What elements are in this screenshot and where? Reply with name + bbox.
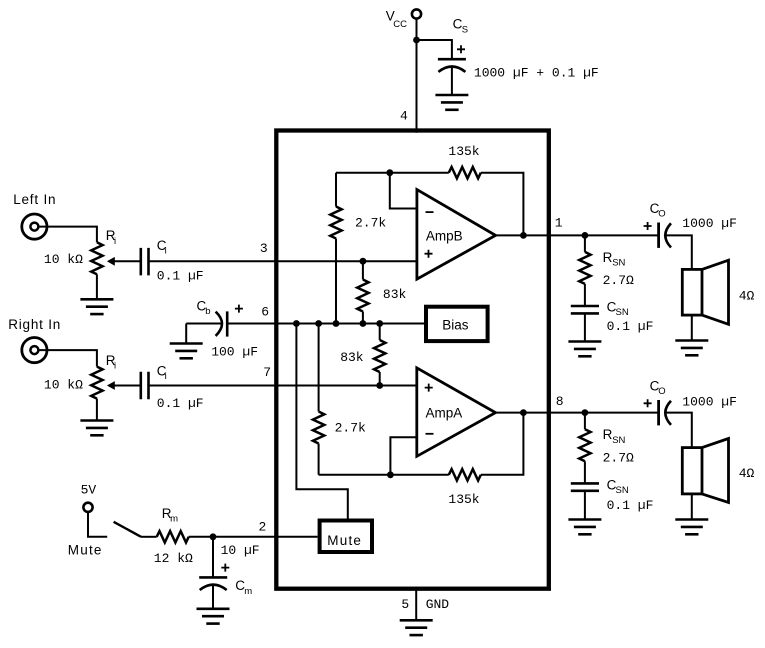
wire CS to ground [451, 67, 453, 96]
junction AmpA feedback [387, 471, 394, 478]
wire to Cm [212, 537, 214, 578]
junction VCC node [413, 37, 420, 44]
junction pin1 [582, 232, 589, 239]
svg-text:i: i [165, 245, 167, 256]
wire to AmpB inverting input [390, 173, 417, 209]
svg-text:12 kΩ: 12 kΩ [154, 551, 193, 566]
capacitor Ci right [141, 372, 149, 400]
svg-text:Mute: Mute [327, 533, 362, 548]
svg-text:5: 5 [401, 597, 409, 612]
ground speaker bottom [675, 518, 708, 521]
svg-text:1000 µF: 1000 µF [682, 395, 737, 410]
capacitor CS [438, 58, 466, 61]
svg-text:SN: SN [616, 485, 629, 496]
svg-text:m: m [170, 513, 178, 524]
ground CSN bottom [568, 518, 601, 521]
ground Ri left [80, 298, 113, 301]
resistor 2.7k upper [335, 173, 337, 324]
resistor 135k top [449, 167, 481, 178]
svg-text:R: R [603, 427, 613, 442]
wire Ri left to ground [96, 274, 98, 299]
op-amp AmpA [417, 368, 496, 456]
wire pin 2 row [213, 536, 318, 538]
svg-text:7: 7 [263, 365, 271, 380]
resistor 83k lower [379, 324, 381, 386]
polarity plus CS [457, 45, 465, 53]
svg-text:Mute: Mute [68, 542, 103, 557]
junction row d [360, 320, 367, 327]
wire CO to speaker bottom [665, 413, 691, 448]
AmpB minus input mark [426, 211, 434, 213]
svg-text:i: i [165, 371, 167, 382]
svg-text:0.1 µF: 0.1 µF [157, 396, 204, 411]
wire jack to Ri left [38, 227, 97, 243]
svg-text:0.1 µF: 0.1 µF [607, 498, 654, 513]
svg-text:100 µF: 100 µF [211, 344, 258, 359]
capacitor Cm [199, 576, 227, 579]
wire CSN bottom to ground [584, 491, 586, 520]
wire AmpA output to pin 8 [496, 412, 659, 414]
svg-text:1000 µF + 0.1 µF: 1000 µF + 0.1 µF [474, 65, 599, 80]
wire AmpB output to pin 1 [496, 234, 659, 236]
junction pin8 [582, 409, 589, 416]
node VCC terminal [412, 9, 421, 18]
wire speaker bottom to ground [691, 494, 693, 520]
junction row e [376, 320, 383, 327]
polarity plus Cm [221, 564, 229, 572]
resistor Ri right (pot) [91, 367, 102, 399]
wire speaker top to ground [691, 315, 693, 340]
capacitor Ci left [141, 248, 149, 276]
svg-text:AmpB: AmpB [426, 228, 463, 243]
resistor 135k bottom [449, 469, 481, 480]
svg-text:R: R [603, 250, 613, 265]
wire Cb to ground [185, 324, 187, 344]
ground Cm [197, 607, 230, 610]
svg-text:83k: 83k [340, 350, 364, 365]
wire CSN to ground [584, 313, 586, 341]
svg-text:SN: SN [612, 257, 625, 268]
speaker bottom [682, 448, 702, 494]
svg-text:i: i [114, 361, 116, 372]
AmpA minus input mark [426, 433, 434, 435]
svg-text:2.7k: 2.7k [335, 420, 366, 435]
svg-text:SN: SN [612, 435, 625, 446]
wire Ri right to ground [96, 399, 98, 421]
svg-text:AmpA: AmpA [426, 406, 463, 421]
svg-text:1: 1 [555, 216, 563, 231]
ground Cb [170, 342, 203, 345]
svg-text:1000 µF: 1000 µF [682, 216, 737, 231]
svg-text:0.1 µF: 0.1 µF [157, 269, 204, 284]
switch blade [114, 522, 141, 537]
wire jack to Ri right [38, 350, 97, 367]
svg-text:GND: GND [426, 597, 450, 612]
jack Left In [22, 214, 47, 239]
wire CO to speaker top [665, 235, 691, 269]
junction AmpB feedback [386, 169, 393, 176]
capacitor CO bottom [644, 399, 652, 407]
wiper arrow right [107, 381, 115, 390]
junction row c [333, 320, 340, 327]
terminal 5V [83, 503, 92, 512]
svg-text:135k: 135k [448, 492, 479, 507]
junction row b [315, 320, 322, 327]
svg-text:83k: 83k [383, 287, 407, 302]
wire wiper to Ci [114, 260, 141, 262]
wire AmpA feedback bottom [319, 413, 524, 475]
wire Rm to pin2 [189, 536, 213, 538]
svg-text:SN: SN [616, 307, 629, 318]
wire pin 3 row to AmpB plus input [149, 260, 417, 262]
capacitor CO top [644, 222, 652, 230]
junction pin7/83k lower [376, 382, 383, 389]
junction pin3/83k [360, 258, 367, 265]
svg-text:O: O [658, 386, 665, 397]
svg-text:Right In: Right In [8, 317, 61, 332]
wire pin 6 row [227, 323, 424, 325]
junction AmpA output [520, 409, 527, 416]
IC box U1 [276, 131, 549, 589]
capacitor Cb [186, 323, 222, 325]
svg-text:Bias: Bias [442, 318, 469, 333]
capacitor CSN bottom [571, 483, 599, 490]
wire VCC to CS [417, 40, 452, 59]
svg-text:2: 2 [259, 519, 267, 534]
ground CS [435, 94, 468, 97]
resistor Rm [157, 531, 189, 542]
block Bias [426, 307, 488, 341]
speaker top [682, 269, 702, 315]
svg-text:b: b [205, 306, 210, 317]
svg-text:3: 3 [260, 241, 268, 256]
svg-text:2.7Ω: 2.7Ω [603, 273, 634, 288]
AmpA plus input mark [425, 384, 433, 392]
junction Rm/Cm [210, 533, 217, 540]
wire pin 7 row to AmpA plus input [149, 385, 417, 387]
svg-text:6: 6 [261, 304, 269, 319]
resistor 83k upper [362, 261, 364, 323]
ground pin5 [400, 619, 433, 622]
op-amp AmpB [417, 190, 496, 280]
ground CSN top [568, 340, 601, 343]
svg-text:2.7k: 2.7k [355, 215, 386, 230]
svg-text:10 kΩ: 10 kΩ [44, 252, 83, 267]
block Mute [320, 521, 372, 553]
svg-text:4Ω: 4Ω [739, 466, 755, 481]
resistor RSN bottom [584, 413, 586, 484]
ground speaker top [675, 339, 708, 342]
svg-text:10 kΩ: 10 kΩ [44, 378, 83, 393]
svg-text:5V: 5V [81, 482, 97, 497]
wiper arrow left [107, 257, 115, 266]
svg-text:Left In: Left In [13, 192, 56, 207]
ground Ri right [80, 419, 113, 422]
svg-text:0.1 µF: 0.1 µF [607, 319, 654, 334]
svg-text:2.7Ω: 2.7Ω [603, 450, 634, 465]
svg-text:4: 4 [400, 108, 408, 123]
wire VCC down to pin 4 [416, 19, 418, 133]
resistor 2.7k lower [318, 324, 320, 475]
jack Right In [22, 338, 47, 363]
resistor Ri left (pot) [91, 242, 102, 274]
AmpB plus input mark [425, 250, 433, 258]
junction AmpB output [520, 232, 527, 239]
resistor RSN top [584, 235, 586, 306]
wire switch pole [88, 512, 107, 537]
wire AmpB feedback top [336, 173, 523, 236]
wire row to Mute block [296, 324, 347, 519]
wire AmpA inverting input [390, 437, 416, 475]
wire pin 5 [415, 588, 417, 620]
svg-text:i: i [114, 236, 116, 247]
junction row a [293, 320, 300, 327]
wire Cm to ground [212, 585, 214, 609]
svg-text:CC: CC [393, 19, 407, 30]
svg-text:O: O [658, 209, 665, 220]
svg-text:8: 8 [556, 394, 564, 409]
capacitor CSN top [571, 306, 599, 313]
wire blade to Rm [141, 536, 157, 538]
svg-text:135k: 135k [448, 144, 479, 159]
svg-text:4Ω: 4Ω [739, 288, 755, 303]
svg-text:m: m [244, 586, 252, 597]
svg-text:10 µF: 10 µF [221, 543, 260, 558]
wire wiper to Ci right [114, 385, 141, 387]
svg-text:S: S [462, 25, 468, 36]
